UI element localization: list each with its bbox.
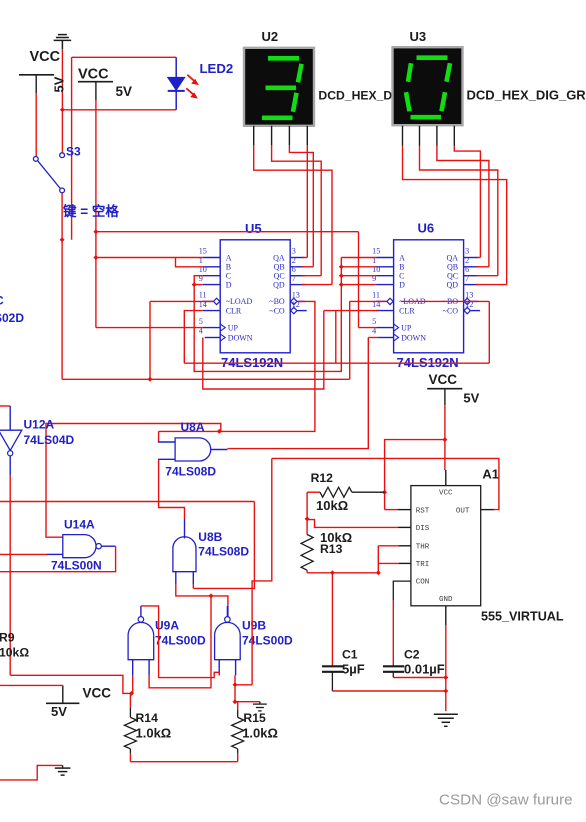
svg-text:10kΩ: 10kΩ bbox=[0, 646, 29, 660]
AND gate U8B 74LS08D (vertical) bbox=[173, 537, 196, 572]
wire U9B output stub bbox=[227, 606, 229, 617]
junction load rail x150 bbox=[148, 377, 153, 382]
U3 pins bbox=[402, 126, 404, 146]
wire DIS to R12/R13 node bbox=[307, 520, 398, 528]
svg-text:CSDN @saw furure: CSDN @saw furure bbox=[439, 792, 573, 809]
LED2 emission arrows bbox=[187, 75, 195, 82]
svg-text:2: 2 bbox=[292, 256, 296, 265]
svg-text:2: 2 bbox=[465, 256, 469, 265]
wire U8A inA drop bbox=[158, 431, 160, 442]
wire U5 A preset from VCC2 bbox=[96, 257, 203, 259]
wire U14A output bbox=[0, 546, 116, 572]
junction VCC2/U5A bbox=[93, 255, 98, 260]
wire THR left bbox=[378, 545, 399, 547]
svg-text:11: 11 bbox=[372, 291, 380, 300]
wire LED loop top bbox=[72, 56, 177, 58]
svg-text:74LS00D: 74LS00D bbox=[155, 634, 206, 648]
wire U2 pin3 to U5 QB bbox=[289, 145, 313, 267]
wire GND down bbox=[445, 625, 447, 711]
junction U9B inB bbox=[233, 682, 238, 687]
svg-text:555_VIRTUAL: 555_VIRTUAL bbox=[481, 610, 564, 624]
ground GND4 small (R15 top) bbox=[235, 701, 260, 703]
junction C2 return bbox=[443, 675, 448, 680]
wire LED row bbox=[62, 109, 176, 111]
555 TRI pin stub bbox=[399, 562, 411, 564]
ground GND2 bottom left bbox=[0, 765, 63, 780]
svg-text:R13: R13 bbox=[320, 542, 343, 556]
svg-text:6: 6 bbox=[465, 265, 469, 274]
wire U6 ~LOAD pin bbox=[350, 300, 387, 302]
svg-text:3: 3 bbox=[465, 247, 469, 256]
junction VCC2/y232 rail bbox=[93, 229, 98, 234]
svg-text:C: C bbox=[0, 294, 4, 308]
wire OUT to y458 rail bbox=[272, 458, 499, 509]
power VCC2 bar bbox=[78, 81, 113, 83]
svg-text:U6: U6 bbox=[418, 221, 435, 236]
svg-text:DOWN: DOWN bbox=[401, 333, 426, 342]
wire U9A out to U9B inA bbox=[141, 606, 219, 678]
svg-text:THR: THR bbox=[416, 543, 430, 551]
wire VCC3 left bbox=[0, 684, 63, 686]
svg-text:13: 13 bbox=[465, 291, 473, 300]
wire U14A input B bbox=[0, 553, 47, 555]
555 DIS pin stub bbox=[398, 526, 411, 528]
svg-text:7: 7 bbox=[465, 274, 469, 283]
svg-text:3: 3 bbox=[292, 247, 296, 256]
counter U5 74LS192N bbox=[220, 240, 290, 353]
U8B input stubs bbox=[175, 572, 177, 584]
wire TRI left bbox=[378, 562, 399, 564]
NAND gate U9B 74LS00D (vertical) bbox=[215, 635, 241, 660]
svg-text:VCC: VCC bbox=[30, 49, 61, 65]
wire to U6 UP pin bbox=[359, 327, 377, 329]
wire U2 pin1 to U5 QD bbox=[254, 145, 332, 285]
wire cap rail y572.8 bbox=[307, 572, 378, 574]
LED2 diode bbox=[168, 77, 185, 90]
wire U9B out to U9A inB bbox=[149, 596, 211, 688]
svg-text:U9B: U9B bbox=[242, 619, 266, 633]
wire C2 to gnd line bbox=[393, 677, 446, 679]
junction preset D bbox=[339, 282, 344, 287]
wire VCC4 stub bbox=[444, 389, 446, 406]
svg-text:S02D: S02D bbox=[0, 311, 24, 325]
wire ground1 to LED junction to S3 contact bbox=[61, 49, 63, 153]
svg-text:TRI: TRI bbox=[416, 561, 430, 569]
svg-text:B: B bbox=[226, 263, 231, 272]
LED2 cathode lead bbox=[175, 91, 177, 110]
svg-text:QD: QD bbox=[273, 280, 285, 289]
U8B output stub up bbox=[184, 519, 186, 538]
wire U6 QA red tail bbox=[476, 257, 480, 259]
junction U9B out net bbox=[209, 593, 214, 598]
junction C1 return bbox=[443, 689, 448, 694]
svg-text:5µF: 5µF bbox=[342, 662, 365, 677]
svg-text:74LS00D: 74LS00D bbox=[242, 634, 293, 648]
wire U5 QD red tail bbox=[302, 284, 332, 286]
555 OUT pin stub bbox=[481, 509, 494, 511]
svg-text:QA: QA bbox=[273, 253, 285, 262]
wire U9A inA red drop bbox=[132, 675, 134, 693]
svg-text:A1: A1 bbox=[482, 467, 499, 482]
svg-text:UP: UP bbox=[228, 323, 239, 332]
svg-text:VCC: VCC bbox=[439, 489, 453, 497]
wire C1 to gnd line bbox=[332, 690, 445, 692]
wire x150 LOAD down to load rail bbox=[149, 301, 151, 379]
LED2 anode lead bbox=[175, 57, 177, 77]
555 RST pin stub bbox=[385, 509, 398, 511]
wire U8A inB from U8B out bbox=[159, 459, 185, 519]
wire U5 CLR left down bbox=[184, 311, 202, 364]
wire S3 bottom contact down bbox=[61, 193, 63, 379]
svg-text:~LOAD: ~LOAD bbox=[226, 297, 253, 306]
svg-text:DCD_HEX_DIG_GR: DCD_HEX_DIG_GR bbox=[467, 87, 586, 102]
svg-text:10kΩ: 10kΩ bbox=[316, 498, 348, 513]
wire U5 DOWN path bbox=[203, 311, 324, 389]
wire R12 left down bbox=[306, 492, 308, 534]
555 GND pin bbox=[445, 606, 447, 625]
svg-text:U3: U3 bbox=[410, 29, 427, 44]
wire U6 QB red tail bbox=[476, 266, 489, 268]
display U2 (shows 3) bbox=[244, 48, 314, 126]
wire U6 QD red tail bbox=[476, 284, 507, 286]
resistor R12 bbox=[307, 491, 320, 493]
ground GND3 (555) bbox=[434, 713, 458, 715]
wire U5 ~LOAD left bbox=[150, 300, 213, 302]
NAND gate U14A 74LS00N bbox=[63, 535, 96, 558]
svg-text:1.0kΩ: 1.0kΩ bbox=[136, 726, 172, 741]
junction ~BO net bbox=[217, 429, 222, 434]
wire preset bus to U6 D bbox=[341, 284, 376, 286]
svg-text:C2: C2 bbox=[404, 648, 420, 662]
svg-text:~CO: ~CO bbox=[269, 306, 285, 315]
wire U5 C-D down to preset bus bbox=[194, 258, 341, 372]
wire U6 DOWN from U8A out bbox=[228, 338, 369, 449]
svg-text:5V: 5V bbox=[52, 76, 67, 92]
junction U5 D bbox=[192, 282, 197, 287]
svg-text:5V: 5V bbox=[463, 391, 479, 406]
555 CON pin stub bbox=[393, 581, 411, 600]
wire U12A output down bbox=[9, 476, 11, 676]
wire preset bus to U6 B bbox=[341, 266, 376, 268]
wire U3 pin4 to U6 QA bbox=[454, 146, 480, 258]
junction LED-cathode/switch bbox=[60, 107, 65, 112]
junction DIS node bbox=[305, 516, 310, 521]
svg-text:7: 7 bbox=[292, 274, 296, 283]
wire U6 ~BO pin bbox=[401, 300, 490, 302]
wire 555 out long path down-left bbox=[252, 458, 272, 684]
wire THR/TRI down to cap rail bbox=[377, 546, 379, 573]
wire U9B inB drop to R15 bbox=[234, 675, 236, 701]
wire CLR rail y363 bbox=[184, 362, 489, 364]
svg-text:U12A: U12A bbox=[24, 418, 55, 432]
svg-text:74LS08D: 74LS08D bbox=[165, 465, 216, 479]
svg-text:1.0kΩ: 1.0kΩ bbox=[242, 726, 278, 741]
wire U8B inB drop bbox=[192, 584, 194, 588]
wire VCC2 rail down x=96 bbox=[95, 100, 97, 328]
svg-text:RST: RST bbox=[416, 508, 430, 516]
wire U2 pin4 to U5 QA bbox=[306, 145, 308, 258]
wire U5 C-D tie bbox=[194, 276, 203, 285]
power VCC3 bar bbox=[46, 702, 79, 704]
wire U2 pin2 to U5 QC bbox=[272, 145, 322, 276]
AND gate U8A 74LS08D bbox=[175, 438, 211, 461]
junction preset C bbox=[339, 273, 344, 278]
svg-text:LED2: LED2 bbox=[200, 61, 234, 76]
power VCC1 bar bbox=[19, 74, 54, 76]
wire load rail y379 bbox=[62, 378, 350, 380]
wire x358 down to U6 UP bbox=[358, 232, 360, 328]
svg-text:D: D bbox=[399, 280, 405, 289]
svg-text:13: 13 bbox=[292, 291, 300, 300]
svg-text:键 = 空格: 键 = 空格 bbox=[62, 203, 119, 219]
wire preset bus to U6 A bbox=[341, 257, 376, 259]
wire junction up-left to U14A input bbox=[219, 430, 221, 432]
svg-text:QC: QC bbox=[274, 272, 285, 281]
svg-text:D: D bbox=[226, 280, 232, 289]
NAND gate U9A 74LS00D (vertical) bbox=[128, 635, 154, 660]
wire U6 DOWN pin red bbox=[368, 337, 378, 339]
svg-text:C: C bbox=[226, 272, 231, 281]
resistor R15 bbox=[235, 701, 238, 703]
svg-text:15: 15 bbox=[372, 247, 380, 256]
junction preset B bbox=[339, 264, 344, 269]
junction VCC4 branch bbox=[442, 437, 447, 442]
svg-text:B: B bbox=[399, 263, 404, 272]
wire U3 pin2 to U6 QC bbox=[420, 146, 498, 276]
svg-text:QB: QB bbox=[274, 263, 285, 272]
wire U5 ~BO to U8A net bbox=[159, 301, 315, 431]
svg-text:R14: R14 bbox=[136, 711, 159, 725]
wire U12A out to U9A inA bbox=[10, 675, 133, 693]
display U3 (shows 0) bbox=[393, 47, 463, 125]
wire U3 pin1 to U6 QD bbox=[403, 146, 507, 285]
svg-text:CLR: CLR bbox=[226, 306, 242, 315]
svg-text:QC: QC bbox=[447, 272, 458, 281]
wire U5 QA red tail bbox=[302, 257, 307, 259]
U2 pins bbox=[253, 126, 255, 145]
svg-text:6: 6 bbox=[292, 265, 296, 274]
svg-text:A: A bbox=[399, 253, 405, 262]
svg-text:74LS00N: 74LS00N bbox=[51, 559, 102, 573]
svg-text:CLR: CLR bbox=[399, 306, 415, 315]
555 THR pin stub bbox=[399, 545, 411, 547]
wire x254 down to U8B inB feed bbox=[193, 502, 254, 589]
ground GND1 top (inverted) bbox=[58, 34, 67, 36]
junction THR/TRI bbox=[376, 570, 381, 575]
svg-text:74LS08D: 74LS08D bbox=[198, 545, 249, 559]
inverter U12A 74LS04D bbox=[0, 405, 10, 407]
wire bottom rail R14-R15 bbox=[130, 761, 237, 763]
capacitor C1 bbox=[331, 573, 333, 667]
svg-text:U5: U5 bbox=[245, 221, 262, 236]
svg-text:15: 15 bbox=[199, 247, 207, 256]
svg-text:DOWN: DOWN bbox=[228, 333, 253, 342]
svg-text:74LS04D: 74LS04D bbox=[24, 433, 75, 447]
svg-text:OUT: OUT bbox=[456, 508, 470, 516]
svg-text:5: 5 bbox=[199, 317, 203, 326]
svg-text:5V: 5V bbox=[116, 84, 133, 99]
wire U3 pin3 to U6 QB bbox=[437, 146, 489, 267]
wire U6 ~BO down to CLR rail bbox=[488, 301, 490, 363]
svg-text:QA: QA bbox=[447, 253, 459, 262]
wire y232 rail VCC2 to U6 UP column bbox=[96, 231, 359, 233]
555 VCC pin stub bbox=[445, 470, 447, 486]
svg-text:~CO: ~CO bbox=[443, 306, 459, 315]
wire long rail y501 from left bbox=[0, 501, 254, 503]
junction x62/x71 bbox=[60, 237, 65, 242]
svg-text:C1: C1 bbox=[342, 648, 358, 662]
resistor R14 bbox=[130, 692, 131, 694]
svg-text:A: A bbox=[226, 253, 232, 262]
svg-text:VCC: VCC bbox=[429, 372, 458, 387]
counter U6 74LS192N bbox=[394, 240, 464, 353]
svg-text:U14A: U14A bbox=[64, 518, 95, 532]
wire U8B inA to U9B out net bbox=[176, 584, 228, 606]
svg-text:5V: 5V bbox=[51, 704, 67, 719]
wire CON down to C2 bbox=[392, 600, 394, 666]
svg-text:VCC: VCC bbox=[78, 66, 109, 82]
wire to U9B inB bbox=[235, 684, 252, 686]
svg-text:C: C bbox=[399, 272, 404, 281]
svg-text:QB: QB bbox=[447, 263, 458, 272]
svg-text:0.01µF: 0.01µF bbox=[404, 662, 445, 677]
svg-text:CON: CON bbox=[416, 579, 430, 587]
svg-text:5: 5 bbox=[372, 317, 376, 326]
resistor R13 bbox=[301, 535, 313, 571]
wire U6 ~LOAD up bbox=[349, 301, 351, 379]
wire x335.8 CLR link bbox=[335, 311, 337, 364]
capacitor C2 bbox=[383, 665, 404, 667]
wire U5 UP from VCC2 bbox=[96, 327, 203, 329]
timer A1 555_VIRTUAL box bbox=[411, 486, 481, 606]
svg-text:UP: UP bbox=[401, 323, 412, 332]
wire VCC1 to S3 pole bbox=[35, 93, 37, 156]
svg-text:VCC: VCC bbox=[83, 686, 112, 701]
svg-text:S3: S3 bbox=[66, 145, 81, 159]
wire LED loop left bbox=[71, 57, 73, 239]
wire preset bus to U6 C bbox=[341, 275, 376, 277]
svg-text:R9: R9 bbox=[0, 631, 15, 645]
junction R12 right bbox=[382, 490, 387, 495]
wire U6 QC red tail bbox=[476, 275, 498, 277]
svg-text:GND: GND bbox=[439, 596, 453, 604]
svg-text:U2: U2 bbox=[262, 29, 279, 44]
svg-text:DIS: DIS bbox=[416, 525, 430, 533]
junction R15 top/ground bbox=[233, 699, 238, 704]
svg-text:R15: R15 bbox=[243, 711, 266, 725]
svg-text:11: 11 bbox=[199, 291, 207, 300]
wire U5 QB red tail bbox=[302, 266, 313, 268]
switch S3 bbox=[33, 157, 38, 162]
svg-text:QD: QD bbox=[447, 280, 459, 289]
wire VCC to RST branch bbox=[385, 440, 445, 510]
junction U9A inA / R14 bbox=[129, 691, 134, 696]
power VCC4 bar bbox=[427, 388, 462, 390]
wire U5 B preset branch bbox=[176, 258, 203, 267]
svg-text:U8A: U8A bbox=[181, 420, 205, 434]
wire U5 QC red tail bbox=[302, 275, 321, 277]
svg-text:DCD_HEX_D: DCD_HEX_D bbox=[318, 88, 392, 102]
wire U6 CLR row bbox=[324, 310, 379, 312]
svg-text:U8B: U8B bbox=[198, 530, 222, 544]
svg-text:~BO: ~BO bbox=[269, 297, 285, 306]
junction C1 top bbox=[330, 570, 335, 575]
svg-text:R12: R12 bbox=[311, 471, 334, 485]
